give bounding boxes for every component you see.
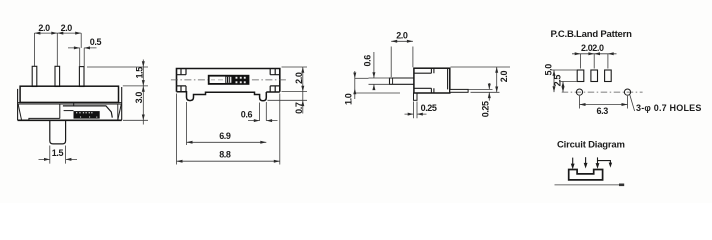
svg-text:5.0: 5.0 [544, 64, 554, 76]
dimension 0.6 foot width [248, 102, 278, 121]
front view bottom-left inner step [29, 118, 60, 120]
dimension 6.3 hole span [580, 96, 628, 109]
PCB hole 1 [576, 89, 582, 95]
leader 3-phi-0.7 HOLES [630, 95, 635, 111]
top view corner box bottom-left [177, 86, 187, 92]
side view knob [390, 78, 414, 84]
dimension 1.5 knob width [39, 146, 78, 164]
top view corner box top-right [270, 69, 280, 75]
svg-text:1.0: 1.0 [343, 93, 353, 105]
front view right inner wall [117, 104, 119, 120]
svg-text:0.5: 0.5 [90, 37, 102, 47]
svg-text:3-φ 0.7 HOLES: 3-φ 0.7 HOLES [636, 103, 702, 113]
svg-text:2.5: 2.5 [553, 75, 563, 87]
svg-text:0.25: 0.25 [480, 101, 490, 117]
svg-text:1.5: 1.5 [135, 67, 145, 79]
terminal arrow 2 [585, 157, 587, 165]
dimension 2.5 (PCB vertical) [559, 82, 577, 93]
svg-text:2.0: 2.0 [61, 23, 73, 33]
dimension 0.6 knob thickness (side view left) [369, 52, 391, 90]
pin 2 (front view) [55, 66, 60, 86]
dimension 1.5 body top offset (vertical) [87, 60, 148, 125]
svg-text:6.3: 6.3 [597, 106, 609, 116]
top view bottom profile with feet [177, 92, 280, 101]
dimension 2.0 knob length (side view top) [391, 41, 413, 77]
front view contact block speckles [76, 112, 97, 117]
dimension 0.25 terminal thickness (side view right) [469, 83, 493, 101]
front view left chamfer [18, 105, 21, 121]
dimension 1.0 knob offset (side view left) [355, 71, 400, 99]
dimension 5.0 (PCB vertical) [552, 70, 577, 92]
dimension 8.8 body width [177, 94, 280, 165]
PCB pad 3 [605, 70, 612, 82]
svg-text:Circuit Diagram: Circuit Diagram [557, 140, 625, 151]
dimension 2.0 body height (side view right) [451, 67, 511, 92]
dimension 2.0 pin pitch (left segment) [34, 33, 81, 66]
front view contact block (hatched) [74, 111, 100, 119]
top view slider window centre dash [211, 79, 223, 81]
svg-text:1.5: 1.5 [52, 148, 64, 158]
front view lower body right wall [121, 87, 123, 120]
dimension 6.9 feet span [187, 102, 267, 145]
front view upper body [20, 86, 118, 102]
svg-text:0.6: 0.6 [241, 110, 253, 120]
svg-text:8.8: 8.8 [219, 150, 231, 160]
svg-text:2.0: 2.0 [294, 72, 304, 84]
branch wire from arrow 3 [598, 161, 611, 165]
svg-text:2.0: 2.0 [38, 23, 50, 33]
grey rule dark end [619, 184, 624, 187]
svg-text:2.0: 2.0 [499, 70, 509, 82]
terminal arrow 3 [597, 157, 599, 165]
side view right double edge [447, 68, 449, 89]
dimension 2.0 top view height (vertical right) [282, 67, 308, 92]
switch common contact (channel shape) [569, 170, 603, 180]
side view bottom flange [414, 88, 434, 93]
dimension 0.5 pin width [68, 48, 97, 67]
svg-text:0.25: 0.25 [421, 103, 437, 113]
PCB pad 1 [577, 70, 584, 82]
pin 1 (front view) [32, 66, 37, 86]
top view slider block [208, 75, 250, 85]
side view top flange [414, 68, 434, 73]
svg-text:2.02.0: 2.02.0 [581, 43, 604, 53]
svg-text:P.C.B.Land Pattern: P.C.B.Land Pattern [551, 29, 633, 40]
PCB pad 2 [591, 70, 598, 82]
pin 3 (front view) [79, 67, 84, 87]
svg-text:2.0: 2.0 [396, 31, 408, 41]
top view contact dots [236, 77, 246, 83]
PCB centre line (dash-dot) [562, 91, 643, 93]
top view contact ladder [226, 77, 231, 83]
svg-text:3.0: 3.0 [134, 92, 144, 104]
front view knob [50, 121, 66, 144]
front view slot divider [59, 104, 61, 119]
grey rule under circuit diagram [555, 184, 620, 186]
front view bottom edge [18, 119, 122, 121]
terminal arrow 1 [572, 158, 574, 166]
dimension 2.0 2.0 pad pitch [572, 54, 617, 69]
dimension 0.25 bottom pin (side view) [405, 102, 427, 119]
dimension 0.7 foot height (vertical right) [268, 92, 308, 114]
top view outer body [177, 69, 280, 92]
side view terminal [450, 89, 468, 92]
side view knob inner line [392, 78, 394, 84]
top view corner box bottom-right [270, 86, 280, 92]
front view step line [18, 102, 122, 104]
svg-text:0.6: 0.6 [363, 55, 373, 67]
svg-text:0.7: 0.7 [294, 102, 304, 114]
front view lower body left wall [17, 89, 19, 120]
PCB hole 2 [624, 89, 630, 95]
front view slot outline [63, 106, 112, 118]
front view slot tick [73, 102, 75, 106]
side view bottom pin [414, 93, 418, 100]
top view slider window [210, 77, 226, 83]
top view corner box top-left [177, 69, 187, 75]
top view center line (dash-dot) [171, 79, 287, 81]
front view right chamfer [118, 105, 122, 121]
front view slot step [64, 110, 74, 112]
side view body [414, 68, 450, 93]
svg-text:6.9: 6.9 [219, 131, 231, 141]
